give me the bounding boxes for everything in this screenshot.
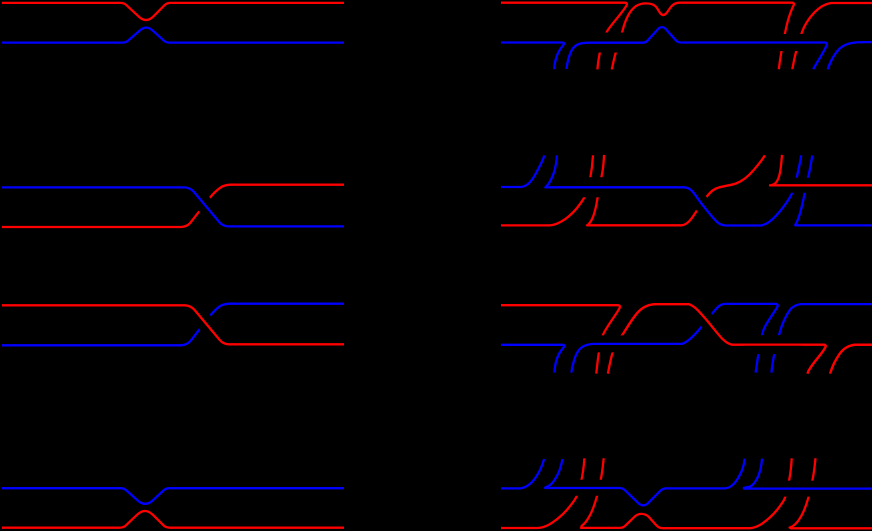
wire red R2 left horizontal with exit curl under blue xyxy=(501,155,593,225)
under-gap band right cluster R1 xyxy=(773,34,809,51)
wire blue R4 main strand with dip and right exit curl xyxy=(545,459,745,506)
wire blue L2 over-strand xyxy=(2,187,344,226)
wire blue R3 main strand rising through crossing with right exit curl xyxy=(571,304,777,373)
wire blue R1 left horizontal with exit curl xyxy=(501,43,564,70)
wire blue R4 left horizontal with exit curl xyxy=(501,459,544,488)
wire red R4 right re-entering strand xyxy=(790,458,872,528)
wire blue R2 main strand crossing down with right exit curl xyxy=(545,155,801,225)
diagram L4 : two strands pinch move mirrored xyxy=(2,488,344,528)
wire red R1 left horizontal with exit curl under blue xyxy=(501,3,627,70)
wire blue R1 main strand with bump and right exit curl xyxy=(566,27,826,69)
under-gap band along blue left horizontal R2 xyxy=(560,177,640,197)
wire blue R4 right re-entering strand xyxy=(744,459,872,489)
diagram L2 : crossing blue over red xyxy=(2,185,344,227)
under-gap band along red S-curve R3 xyxy=(689,304,732,345)
under-gap band left cluster R1 xyxy=(573,33,641,53)
wire red L3 over-strand xyxy=(2,305,344,344)
wire blue L1 bottom with bump xyxy=(2,28,344,43)
wire blue R3 left horizontal with exit curl xyxy=(501,345,564,373)
wire red L1 top with dip xyxy=(2,3,344,20)
wire blue R2 right re-entering strand xyxy=(795,155,872,225)
wire red R3 right re-entering strand xyxy=(830,345,872,374)
under-gap band along blue left horizontal R3 xyxy=(576,335,646,352)
diagram R4 : pinch move mirrored with curls to top boundary xyxy=(501,458,872,528)
wire red L4 bottom with bump xyxy=(2,511,344,528)
under-gap band along blue S-curve R2 xyxy=(684,187,726,225)
wire blue R1 right re-entering strand xyxy=(828,42,872,69)
diagram L3 : crossing red over blue xyxy=(2,304,344,346)
under-gap band right cluster R4 xyxy=(741,481,829,497)
under-gap band left cluster R4 xyxy=(557,480,632,496)
wire red R3 over-strand repaint xyxy=(623,304,872,374)
under-gap band at L2 crossing xyxy=(185,187,229,226)
diagram L1 : two strands pinch move xyxy=(2,3,344,43)
wire red R4 re-entering strand with bump and right exit curl xyxy=(581,458,792,528)
wire blue L3 under-strand xyxy=(2,304,344,346)
under-gap band at L3 crossing xyxy=(185,305,229,344)
diagram R3 : crossing red over blue with curls to bottom boundary xyxy=(501,304,872,374)
diagram R2 : crossing blue over red with curls to top boundary xyxy=(501,155,872,226)
wire red R3 re-entering strand over crossing to bottom right xyxy=(608,304,826,374)
wire red R3 left horizontal with exit curl under blue xyxy=(501,305,620,373)
wire red R2 right re-entering strand to top line xyxy=(770,155,872,185)
wire red L2 under-strand xyxy=(2,185,344,227)
wire blue R3 right re-entering strand xyxy=(771,304,872,373)
wire red R1 right re-entering strand xyxy=(792,3,872,69)
wire red R1 re-entering strand with dip xyxy=(612,3,794,70)
wire blue R2 left horizontal with exit curl xyxy=(501,155,544,187)
under-gap band along red right horizontal R3 xyxy=(744,335,802,354)
under-gap band along red right horizontal R2 xyxy=(769,178,872,193)
diagram R1 : pinch move with curls to bottom boundary xyxy=(501,3,872,70)
wire blue L4 top with dip xyxy=(2,488,344,504)
wire red R2 re-entering strand rising through crossing xyxy=(587,155,765,225)
wire red R4 bottom strand with exit curls under blue and bump xyxy=(501,458,584,528)
